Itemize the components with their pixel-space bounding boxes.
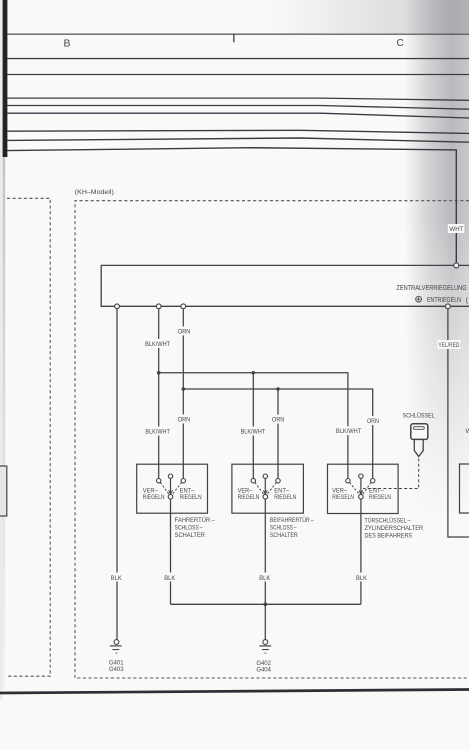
S3 dashed contact to VERRIEGELN xyxy=(350,482,360,494)
header rule 3 xyxy=(7,74,469,75)
svg-text:ORN: ORN xyxy=(272,417,285,424)
neighbouring circuit dashed enclosure (left, partial) xyxy=(7,198,50,676)
label ORN (S1) xyxy=(177,414,191,423)
label ORN (upper) xyxy=(177,326,191,335)
svg-text:G404: G404 xyxy=(256,666,271,673)
label YEL/RED xyxy=(437,340,460,349)
S3 terminal left xyxy=(346,479,350,483)
switch S2 Beifahrertuer-Schloss-Schalter box xyxy=(232,464,304,513)
S3 dashed contact to ENTRIEGELN xyxy=(362,482,371,494)
neighbouring switch box fragment (left edge) xyxy=(0,466,7,516)
label BLK/WHT (upper) xyxy=(144,339,171,348)
label BLK/WHT (S2) xyxy=(240,427,267,436)
S2 movable contact arm with arrow xyxy=(263,479,267,494)
switch S3 Tuerschluessel-Zylinderschalter box xyxy=(328,464,399,513)
S3 movable contact arm with arrow xyxy=(359,479,363,494)
svg-text:ORN: ORN xyxy=(178,328,191,335)
svg-text:C: C xyxy=(397,38,404,49)
label ORN (S3) xyxy=(366,416,380,425)
svg-text:VER–: VER– xyxy=(143,489,158,495)
S1 movable contact arm with arrow xyxy=(169,479,173,494)
S2 common wire BLK down to ground xyxy=(264,499,266,640)
wire BLK/WHT branch (to S2, S3 left terminals) xyxy=(159,373,348,479)
wire YEL/RED (bus to driver door unit, partial) xyxy=(448,306,469,537)
label BLK/WHT (S3) xyxy=(335,426,362,435)
svg-text:SCHALTER: SCHALTER xyxy=(270,532,298,539)
S2 terminal left xyxy=(251,479,255,483)
S2 dashed contact to VERRIEGELN xyxy=(255,482,264,494)
book gutter light column xyxy=(0,0,3,700)
svg-text:BLK/WHT: BLK/WHT xyxy=(241,429,266,436)
S2 dashed contact to ENTRIEGELN xyxy=(267,482,277,494)
top edge shading wedge xyxy=(270,0,469,33)
svg-text:DES BEIFAHRERS: DES BEIFAHRERS xyxy=(365,532,413,539)
svg-text:BLK/WHT: BLK/WHT xyxy=(145,341,170,348)
S2 terminal right xyxy=(276,479,280,483)
S1 terminal middle xyxy=(168,474,172,478)
svg-text:RIEGELN: RIEGELN xyxy=(369,495,391,501)
KH-Modell dashed enclosure xyxy=(75,201,469,678)
svg-text:BLK: BLK xyxy=(111,575,123,582)
S1 terminal right xyxy=(181,479,185,483)
svg-text:RIEGELN: RIEGELN xyxy=(180,495,202,501)
wire ORN branch (to S2, S3 right terminals) xyxy=(183,389,372,479)
S1 terminal left xyxy=(157,479,161,483)
S1 common terminal xyxy=(168,494,173,499)
book gutter dark bar xyxy=(3,0,8,157)
S1 dashed contact to VERRIEGELN xyxy=(160,482,169,494)
bottom BLK tie wire xyxy=(171,603,361,605)
svg-text:RIEGELN: RIEGELN xyxy=(238,495,260,501)
junction dot ORN branch at S2 wire xyxy=(276,387,280,391)
svg-text:BLK: BLK xyxy=(259,575,271,582)
wire ORN (bus to S1 right terminal) xyxy=(182,306,184,478)
node BLK on bus bottom line xyxy=(115,304,120,309)
svg-text:ORN: ORN xyxy=(367,418,379,425)
svg-text:G403: G403 xyxy=(109,666,124,673)
svg-text:(KH–Modell): (KH–Modell) xyxy=(75,189,114,196)
key symbol xyxy=(411,424,428,457)
svg-text:SCHLOSS –: SCHLOSS – xyxy=(175,525,203,532)
S1 dashed contact to ENTRIEGELN xyxy=(172,482,182,494)
node ORN on bus bottom line xyxy=(181,304,186,309)
node WHT on bus top line xyxy=(454,263,459,268)
grid tick xyxy=(233,34,234,42)
svg-text:ENT–: ENT– xyxy=(274,489,289,495)
svg-text:VER–: VER– xyxy=(332,489,347,495)
S1 common wire BLK down xyxy=(170,499,172,604)
svg-text:ZYLINDERSCHALTER: ZYLINDERSCHALTER xyxy=(365,525,424,532)
symbol circled plus xyxy=(416,296,422,302)
junction dot BLK tie at S2 wire xyxy=(264,603,268,607)
header rule 5 xyxy=(7,106,469,110)
node YEL/RED on bus bottom line xyxy=(446,304,451,309)
label BLK (S3) xyxy=(355,573,368,582)
svg-text:BLK/WHT: BLK/WHT xyxy=(145,429,170,436)
svg-text:RIEGELN: RIEGELN xyxy=(274,495,296,501)
svg-text:BLK: BLK xyxy=(356,575,368,582)
label ORN (S2) xyxy=(271,415,286,424)
page bottom rule xyxy=(0,690,469,694)
svg-text:TÜRSCHLÜSSEL –: TÜRSCHLÜSSEL – xyxy=(365,516,411,524)
wire BLK to ground G401 xyxy=(116,306,118,639)
header rule 1 xyxy=(7,34,469,35)
svg-text:FAHRERTÜR –: FAHRERTÜR – xyxy=(175,516,215,524)
label WHT xyxy=(448,224,465,233)
svg-text:ORN: ORN xyxy=(178,416,191,423)
S3 common wire BLK down xyxy=(360,499,362,604)
header rule 2 xyxy=(7,58,469,59)
svg-text:SCHLÜSSEL: SCHLÜSSEL xyxy=(403,411,436,419)
junction dot BLK/WHT branch at S2 wire xyxy=(252,371,256,375)
S3 caption TUERSCHLUESSEL-ZYLINDERSCHALTER DES BEIFAHRERS xyxy=(365,516,424,539)
S3 terminal middle xyxy=(359,474,363,478)
svg-text:BLK/WHT: BLK/WHT xyxy=(336,428,362,435)
header rule 6 xyxy=(7,113,469,118)
svg-text:BLK: BLK xyxy=(164,575,176,582)
svg-text:BEIFAHRERTÜR –: BEIFAHRERTÜR – xyxy=(270,516,314,524)
svg-text:ENT–: ENT– xyxy=(180,489,195,495)
header rule 8 xyxy=(7,138,469,142)
S2 common terminal xyxy=(263,494,268,499)
driver door unit inner box (partial, right edge) xyxy=(460,464,469,513)
svg-text:ENT–: ENT– xyxy=(369,489,384,495)
svg-text:SCHLOSS –: SCHLOSS – xyxy=(270,525,297,532)
label BLK (S2) xyxy=(258,573,271,582)
dashed mechanical link key to S3 xyxy=(363,459,419,489)
junction dot BLK/WHT branch at S1 wire xyxy=(157,371,161,375)
svg-text:VER–: VER– xyxy=(238,489,253,495)
switch S1 Fahrertuer-Schloss-Schalter box xyxy=(137,464,208,513)
ground G401/G403 xyxy=(110,640,122,654)
svg-text:RIEGELN: RIEGELN xyxy=(143,495,165,501)
label BLK (left ground wire) xyxy=(110,573,123,582)
S2 terminal middle xyxy=(263,474,267,478)
wire BLK/WHT (bus to S1 left terminal) xyxy=(158,306,160,478)
right page-curl shading xyxy=(405,0,469,520)
node BLK/WHT on bus bottom line xyxy=(156,304,161,309)
svg-text:W: W xyxy=(466,428,469,435)
svg-text:WHT: WHT xyxy=(449,226,463,233)
header rule 7 xyxy=(7,130,469,133)
S2 caption BEIFAHRERTUER-SCHLOSS-SCHALTER xyxy=(270,516,314,539)
header rule 4 xyxy=(7,98,469,100)
label BLK/WHT (S1) xyxy=(144,427,171,436)
S3 common terminal xyxy=(359,494,364,499)
bus bar Zentralverriegelung xyxy=(101,265,469,306)
junction dot ORN branch at S1 wire xyxy=(182,387,186,391)
svg-text:ENTRIEGELN: ENTRIEGELN xyxy=(427,297,461,304)
book gutter streak below bar xyxy=(3,157,5,690)
svg-text:RIEGELN: RIEGELN xyxy=(332,495,354,501)
svg-text:B: B xyxy=(64,37,71,49)
svg-text:YEL/RED: YEL/RED xyxy=(438,342,459,349)
svg-text:SCHALTER: SCHALTER xyxy=(175,532,206,539)
svg-text:ZENTRALVERRIEGELUNG: ZENTRALVERRIEGELUNG xyxy=(396,285,466,292)
label BLK (S1) xyxy=(163,573,176,582)
ground G402/G404 xyxy=(259,640,271,654)
wire WHT feeder (top rule turning down into bus) xyxy=(7,148,456,266)
S1 caption FAHRERTUER-SCHLOSS-SCHALTER xyxy=(175,516,215,539)
S3 terminal right xyxy=(371,479,375,483)
